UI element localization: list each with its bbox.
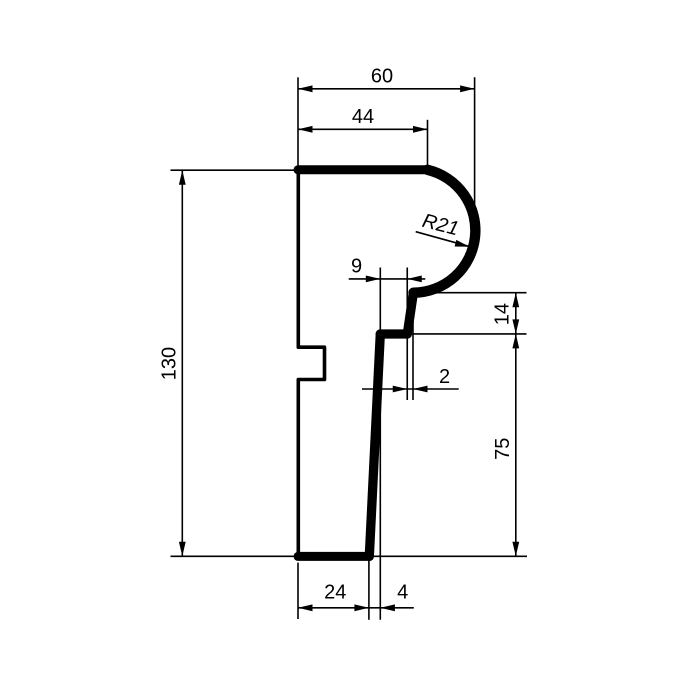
- svg-text:60: 60: [371, 66, 393, 88]
- extension line x=368.9 (24 right / 4 left): [368, 558, 370, 620]
- svg-text:14: 14: [492, 303, 514, 325]
- profile left side with notch (thin contour): [298, 170, 324, 557]
- extension line x=298 bottom (24 left): [297, 563, 299, 619]
- extension line left x=298 top: [297, 77, 299, 167]
- arrow 9 right (outside, pointing left): [407, 276, 422, 283]
- profile bottom edge (thick): [298, 552, 369, 561]
- arrow 9 left (outside, pointing right): [366, 276, 381, 283]
- arrow 2 left (outside, pointing right): [393, 386, 408, 393]
- extension line x=474.6 (60 right): [474, 77, 476, 207]
- arrow 24 left: [298, 604, 313, 611]
- svg-text:75: 75: [492, 438, 514, 460]
- dimension line 14 and 75: [515, 293, 517, 557]
- svg-text:2: 2: [439, 366, 450, 388]
- dimension line 60: [298, 88, 475, 90]
- arrow 75 bottom: [512, 542, 519, 557]
- extension line y=292.7 (14 top): [420, 292, 527, 294]
- profile step under bulb: [407, 293, 413, 334]
- svg-text:4: 4: [397, 581, 408, 603]
- svg-text:130: 130: [159, 347, 181, 380]
- dimension line 130: [181, 170, 183, 556]
- extension line x=407.25 (9 right / 2 left): [406, 268, 408, 401]
- svg-text:9: 9: [351, 256, 362, 278]
- arrow 60 left: [298, 85, 313, 92]
- arrow 130 bottom: [179, 542, 186, 557]
- extension line x=380.3 (9 left / 4 right): [379, 268, 381, 620]
- arrow 2 right (outside, pointing left): [413, 386, 428, 393]
- arrow 75 top: [512, 334, 519, 349]
- profile top edge (thick): [298, 165, 428, 174]
- extension line x=413 (2 right): [412, 295, 414, 400]
- arrow 14 top: [512, 293, 519, 308]
- arrow 24 right: [354, 604, 369, 611]
- arrow 60 right: [460, 85, 475, 92]
- profile ledge: [380, 329, 407, 338]
- svg-text:44: 44: [352, 106, 374, 128]
- dimension line 2: [362, 388, 459, 390]
- arrow 130 top: [179, 170, 186, 185]
- arrow 44 right: [413, 126, 428, 133]
- arrow R21 leader: [455, 240, 470, 247]
- arrow 4 (outside, pointing left): [380, 604, 395, 611]
- profile bulb arc R21 (thick): [414, 170, 476, 293]
- dimension line 9: [349, 278, 426, 280]
- extension line y=333.9 (14 bottom / 75 top): [404, 333, 527, 335]
- leader line R21: [416, 232, 469, 247]
- extension line y=556.3 (130/75 bottom): [171, 555, 528, 557]
- profile slant: [369, 334, 380, 556]
- arrow 14 bottom: [512, 319, 519, 334]
- extension line y=170.2 (130 top): [171, 169, 297, 171]
- svg-text:24: 24: [324, 582, 346, 604]
- extension line x=427.5 (44 right): [427, 120, 429, 168]
- arrow 44 left: [298, 126, 313, 133]
- dimension line 44: [298, 128, 428, 130]
- dimension line 24 and 4: [298, 607, 414, 609]
